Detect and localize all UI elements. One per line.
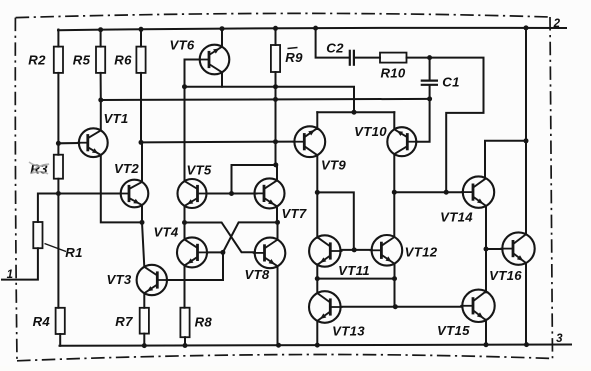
svg-text:VT14: VT14 — [440, 210, 473, 225]
wire: bottom rail to pin 3 — [60, 345, 572, 346]
wire: VT4 emitter to R8 — [184, 265, 186, 307]
junction: VT14 emitter / VT16 base — [484, 247, 489, 252]
transistor VT11 — [309, 235, 342, 266]
svg-text:VT12: VT12 — [405, 245, 438, 260]
wire: VT3 emitter to R7 — [143, 293, 145, 308]
svg-text:VT7: VT7 — [281, 206, 306, 221]
wire: VT7 emitter lead — [276, 206, 278, 222]
R1 pointer line — [45, 244, 67, 252]
wire: VT14 emitter to VT15 collector — [485, 206, 487, 292]
junction: VT4 base / VT3 base branch — [220, 250, 225, 255]
svg-text:R8: R8 — [195, 314, 213, 329]
transistor VT10 — [387, 127, 418, 156]
wire: VT6 collector lead — [221, 28, 223, 47]
wire: VT3 base line — [167, 252, 223, 280]
wire: R10/C1 node to VT14 base line — [407, 58, 484, 193]
wire: VT2 emitter to VT3 collector — [142, 205, 144, 267]
wire: mid bias rail — [101, 99, 430, 100]
wire: VT7 collector lead — [276, 165, 278, 181]
wire: VT14 base line — [394, 191, 463, 193]
svg-text:R6: R6 — [114, 52, 132, 67]
transistor VT12 — [370, 235, 403, 266]
wire: VT10 emitter to VT12 collector — [393, 154, 395, 237]
scan smudge over R3 label — [29, 162, 49, 174]
wire: R7 bottom lead — [143, 334, 145, 346]
transistor VT1 — [77, 128, 108, 157]
svg-text:VT8: VT8 — [244, 267, 269, 282]
wire: VT9/VT10 collector tie — [317, 111, 394, 113]
junction: R6 / VT2 collector / VT9 base line — [139, 140, 144, 145]
transistor VT15 — [460, 290, 494, 322]
wire: VT10 base to C1 bottom / mid rail — [416, 85, 429, 142]
svg-text:R3: R3 — [30, 161, 48, 176]
resistor R9 — [271, 45, 280, 72]
svg-text:R4: R4 — [33, 314, 51, 329]
transistor VT6 — [198, 45, 230, 75]
junction: R5 / rail — [98, 27, 103, 32]
wire: VT10 collector lead — [393, 112, 395, 129]
junction: feedback / VT14 base line — [444, 190, 449, 195]
transistor VT13 — [309, 291, 343, 323]
junction: VT13 emitter / bottom rail — [315, 343, 320, 348]
junction: R9 line / VT7 collector — [273, 162, 278, 167]
wire: VT16 emitter to bottom rail — [525, 263, 527, 345]
svg-text:VT15: VT15 — [437, 323, 470, 338]
wire: VT13/VT15 base line — [341, 306, 463, 308]
junction: R5 / VT1 collector / mid rail — [98, 98, 103, 103]
svg-text:VT16: VT16 — [489, 268, 522, 283]
wire: R8 bottom lead — [184, 337, 186, 345]
junction: R6 / rail — [139, 27, 144, 32]
wire: VT11 emitter lead — [316, 264, 318, 278]
wire: VT2 collector lead — [141, 142, 143, 181]
wire: VT9 base line — [141, 141, 293, 144]
wire: VT5 emitter lead — [184, 206, 186, 223]
svg-text:R5: R5 — [73, 52, 91, 67]
transistor VT7 — [253, 178, 285, 208]
junction: VT11-VT12 base tie — [352, 247, 357, 252]
wire: rail to C2 left plate — [316, 28, 350, 58]
resistor R1 — [33, 222, 42, 248]
wire: R4 bottom lead — [59, 334, 61, 346]
wire: R9 bottom to VT7 collector node — [275, 72, 277, 165]
wire: R6 top lead — [140, 29, 142, 47]
wire: R3 to R4 — [57, 179, 59, 308]
transistor VT3 — [137, 265, 169, 295]
wire: VT15 emitter lead — [485, 320, 487, 345]
junction: C2 branch / rail — [313, 26, 318, 31]
junction: VT7 emitter / VT8 collector — [275, 220, 280, 225]
resistor R10 — [380, 53, 407, 63]
wire: R5 bottom lead — [100, 73, 102, 100]
svg-text:VT13: VT13 — [332, 324, 365, 339]
wire: VT8 collector lead — [277, 222, 279, 239]
junction: VT6 base loop / VT5 collector — [182, 84, 187, 89]
svg-text:VT3: VT3 — [106, 272, 131, 287]
svg-text:C1: C1 — [442, 75, 459, 90]
wire: C1 top lead — [429, 58, 431, 81]
junction: R9 / VT6 emitter line — [273, 84, 278, 89]
svg-text:R7: R7 — [115, 314, 133, 329]
junction: R9 line / mid rail — [273, 97, 278, 102]
resistor R3 — [54, 155, 63, 179]
wire: VT9 collector lead — [316, 112, 318, 129]
svg-text:R2: R2 — [28, 52, 46, 67]
junction: VT5 emitter / VT4 collector — [182, 220, 187, 225]
wire: top supply rail to pin 2 — [58, 28, 566, 30]
wire: VT6 emitter line to VT9/VT10 collectors — [185, 87, 355, 113]
junction: VT6 emitter line / collector tie — [352, 110, 357, 115]
wire: cross-couple to VT8 base — [185, 223, 255, 253]
junction: pin2 line / rail — [524, 25, 529, 30]
wire: VT1 emitter to VT2 emitter — [101, 155, 142, 222]
junction: VT12 emitter tie — [392, 276, 397, 281]
wire: VT2 base line — [58, 193, 120, 195]
svg-text:R10: R10 — [380, 66, 405, 81]
resistor R7 — [140, 308, 149, 334]
junction: VT10 emitter / VT14 base line — [392, 190, 397, 195]
svg-text:VT9: VT9 — [321, 158, 346, 173]
wire: R5 top lead — [100, 29, 102, 46]
junction: VT8 emitter / bottom rail — [276, 343, 281, 348]
junction: VT16 emitter / bottom rail — [524, 342, 529, 347]
resistor R4 — [56, 308, 65, 334]
junction: R9 / rail — [273, 26, 278, 31]
wire: VT9 emitter to VT11/VT12 bases — [317, 192, 354, 250]
transistor VT4 — [177, 237, 209, 267]
junction: R9 line / VT9 base line — [273, 139, 278, 144]
svg-text:R9: R9 — [285, 50, 303, 65]
junction: R2-R3 / VT1 base — [56, 141, 61, 146]
junction: C1 / R10 node — [427, 55, 432, 60]
wire: R6 bottom lead — [140, 73, 142, 142]
wire: cross-couple to VT4 base — [207, 222, 277, 252]
transistor VT14 — [461, 176, 494, 207]
wire: VT13 emitter lead — [316, 321, 318, 345]
junction: VT5-VT7 base tie — [229, 191, 234, 196]
junction: VT1 emitter / VT2 emitter — [140, 220, 145, 225]
transistor VT9 — [292, 126, 325, 157]
wire: VT13 collector lead — [316, 279, 318, 293]
svg-text:1: 1 — [7, 269, 14, 281]
junction: R7 / bottom rail — [142, 343, 147, 348]
wire: VT8 emitter to bottom rail — [277, 266, 279, 345]
resistor R5 — [96, 47, 105, 73]
wire: VT9 emitter lead — [316, 155, 318, 192]
capacitor C1 — [421, 81, 438, 85]
wire: R2 top lead — [57, 30, 59, 47]
junction: VT6 collector / rail — [220, 26, 225, 31]
resistor R6 — [136, 47, 145, 73]
svg-text:VT10: VT10 — [354, 124, 387, 139]
R9 overbar — [288, 48, 298, 49]
wire: branch to R1 — [38, 194, 59, 223]
wire: VT5/VT7 base tie — [207, 193, 257, 195]
wire: base tie to VT7 collector — [232, 165, 278, 194]
junction: VT9 emitter node — [315, 190, 320, 195]
junction: VT14 collector / pin2 line — [524, 138, 529, 143]
capacitor C2 — [350, 50, 354, 66]
wire: VT1 collector lead — [100, 100, 102, 130]
transistor VT5 — [178, 179, 209, 208]
junction: R3 / R1 / VT2 base — [56, 191, 61, 196]
wire: pin 2 line down to VT16 collector — [525, 27, 527, 234]
transistor VT8 — [253, 238, 286, 269]
wire: pin 1 lead to R1 — [2, 248, 38, 279]
transistor VT2 — [119, 180, 149, 208]
wire: R9 top lead — [275, 28, 277, 45]
resistor R8 — [180, 308, 189, 338]
wire: R2 to R3 — [57, 73, 59, 155]
svg-text:VT11: VT11 — [338, 263, 370, 278]
wire: VT11 collector lead — [316, 192, 318, 237]
wire: C2 to R10 — [354, 57, 380, 59]
wire: VT4 collector lead — [184, 223, 186, 240]
wire: VT16 base lead — [486, 248, 502, 250]
svg-text:R1: R1 — [65, 245, 82, 260]
svg-text:VT4: VT4 — [153, 224, 178, 239]
resistor R2 — [54, 47, 63, 73]
svg-text:2: 2 — [553, 18, 561, 30]
wire: VT12 emitter down to base line — [394, 264, 396, 307]
wire: VT1 base lead — [58, 142, 79, 144]
junction: VT13-VT15 base line — [393, 304, 398, 309]
wire: VT14 collector to pin2 line — [485, 141, 526, 179]
junction: mid rail / C1 bottom — [427, 96, 432, 101]
transistor VT16 — [500, 232, 534, 264]
junction: R8 / bottom rail — [183, 343, 188, 348]
svg-text:C2: C2 — [326, 41, 344, 56]
wire: VT6 emitter lead — [221, 73, 223, 87]
svg-text:VT2: VT2 — [114, 161, 139, 176]
junction: VT15 emitter / bottom rail — [484, 342, 489, 347]
svg-text:VT1: VT1 — [103, 111, 128, 126]
svg-text:3: 3 — [556, 333, 563, 345]
svg-text:VT6: VT6 — [169, 38, 194, 53]
junction: VT11 emitter / VT13 collector — [315, 276, 320, 281]
wire: VT11/VT12 emitter tie — [317, 278, 394, 280]
wire: down to VT5 collector — [184, 87, 186, 182]
svg-text:VT5: VT5 — [186, 163, 211, 178]
wire: VT11/VT12 base tie — [341, 249, 372, 251]
wire: VT6 base loop — [185, 60, 200, 87]
